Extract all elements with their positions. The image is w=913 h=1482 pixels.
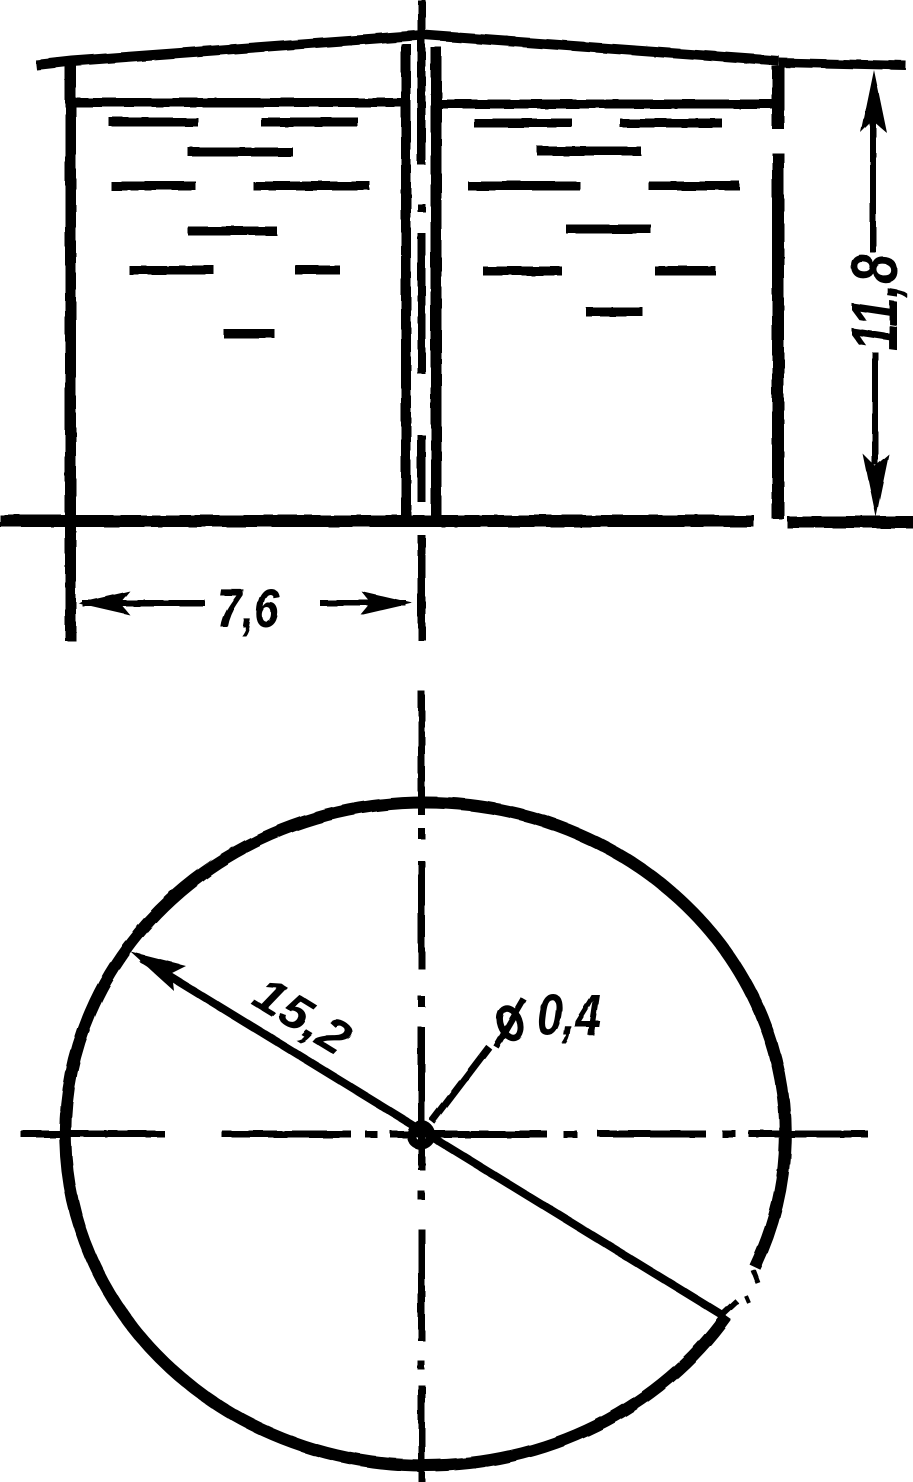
water dash row5 left a [129, 266, 214, 275]
centre hole of circle [411, 1125, 431, 1145]
tank left wall [65, 58, 76, 641]
dimension 7,6 left arrowhead [78, 591, 130, 615]
water surface line left [76, 98, 401, 107]
water dash row4 right [566, 225, 651, 234]
centre tube right wall [431, 47, 442, 518]
water dash row3 left a [111, 182, 196, 191]
water dash row3 right b [649, 182, 740, 191]
tank lid left slope [36, 35, 423, 65]
dimension 11,8 top arrow shaft [870, 100, 876, 253]
water dash row5 right b [655, 267, 716, 276]
water dash row1 right b [620, 119, 722, 128]
lid extension line to dimension 11,8 [779, 63, 906, 66]
dimension 7,6 right arrow shaft [320, 600, 406, 606]
diameter line arrowhead (upper left) [131, 952, 186, 991]
leader line for hole label [432, 1047, 489, 1122]
water dash row6 right [586, 308, 643, 317]
tank lid right slope [423, 35, 779, 61]
diameter symbol of hole label [496, 999, 524, 1047]
water dash row2 left [188, 148, 293, 157]
water dash row1 left b [261, 118, 358, 127]
tank right wall lower piece [772, 153, 784, 519]
svg-text:11,8: 11,8 [837, 254, 911, 351]
radius/diameter line 15,2 [142, 959, 722, 1315]
dimension 11,8 bottom arrowhead [863, 454, 889, 517]
water dash row1 left a [109, 118, 198, 127]
ground baseline left segment [0, 515, 754, 527]
circle (top view of tank) [65, 803, 785, 1466]
water dash row5 left b [295, 266, 340, 275]
small dot in circle gap [746, 1296, 749, 1303]
water dash row3 left b [253, 182, 370, 191]
circle horizontal centreline dash-dot [21, 1131, 868, 1138]
diameter line end hook (lower right) [722, 1301, 737, 1315]
svg-text:7,6: 7,6 [217, 577, 279, 639]
water dash row2 right [537, 147, 641, 156]
tank right wall upper piece [772, 66, 784, 129]
dimension 11,8 top arrowhead [861, 70, 887, 133]
water dash row1 right a [474, 119, 572, 128]
water dash row4 left [188, 227, 277, 236]
water surface line right [441, 100, 772, 109]
small dash in circle gap [753, 1270, 758, 1283]
water dash row6 left [224, 330, 275, 339]
ground baseline right segment [787, 516, 913, 528]
water dash row3 right a [468, 182, 580, 191]
centre tube left wall [401, 44, 411, 518]
dimension 11,8 bottom arrow shaft [872, 352, 878, 465]
svg-text:0,4: 0,4 [537, 983, 601, 1048]
water dash row5 right a [483, 267, 562, 276]
circle vertical centreline dash-dot [418, 691, 425, 1482]
dimension 7,6 left arrow shaft [82, 600, 205, 606]
tank centre axis dash-dot line (vertical, x=421) [418, 0, 426, 640]
dimension 7,6 right arrowhead [361, 591, 413, 615]
